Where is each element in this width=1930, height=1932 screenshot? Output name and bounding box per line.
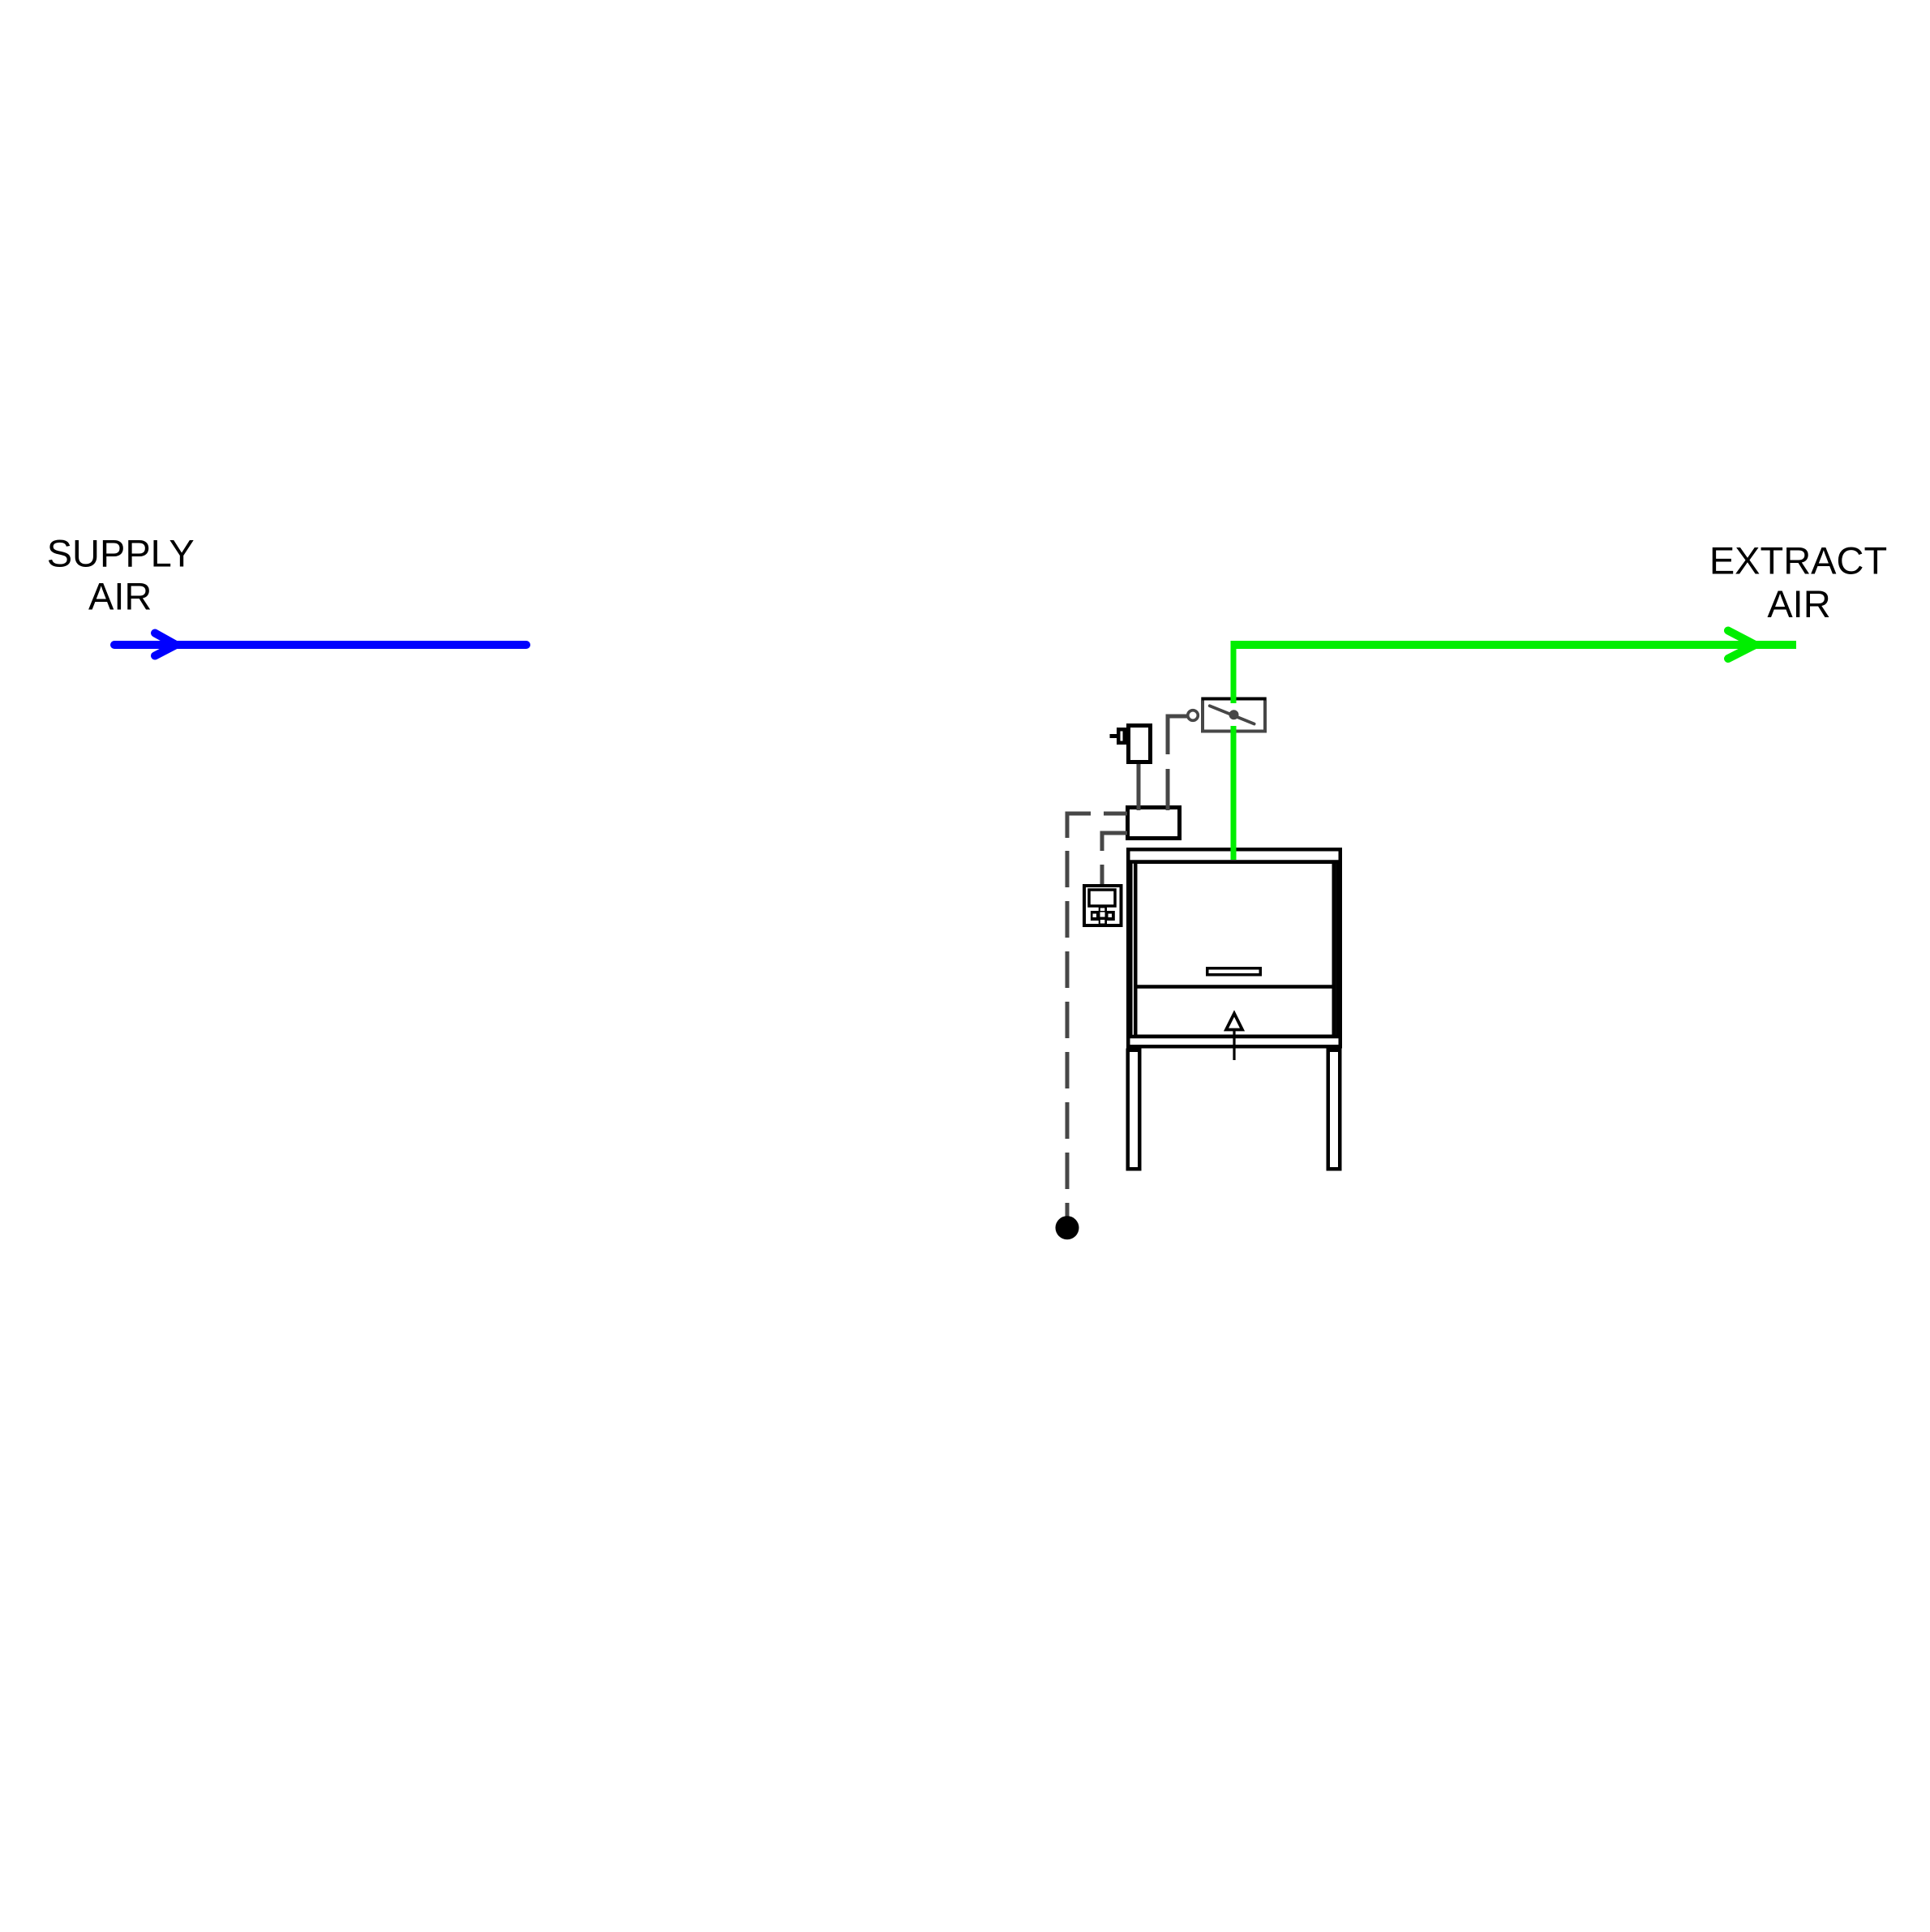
- svg-text:SUPPLY: SUPPLY: [47, 531, 195, 574]
- svg-text:AIR: AIR: [88, 574, 152, 617]
- wire control cable W1 damper to controller (gray): [1168, 716, 1187, 810]
- left wall inner line: [1130, 861, 1133, 1037]
- label SUPPLY AIR: [47, 531, 195, 617]
- wire extract air duct vertical upper (green): [1231, 641, 1237, 703]
- controller U1: [1128, 808, 1180, 839]
- supply air flow arrowhead: [155, 633, 176, 656]
- airflow arrow into sash opening: [1226, 1014, 1242, 1061]
- display panel U2: [1084, 886, 1122, 925]
- fume cupboard sash line: [1134, 985, 1336, 989]
- fume cupboard right leg: [1328, 1050, 1340, 1170]
- right wall inner line: [1336, 861, 1339, 1037]
- wire control cable W3 controller to display (gray dashed): [1102, 833, 1127, 885]
- extract air flow arrowhead: [1728, 631, 1756, 659]
- damper actuator port circle: [1188, 711, 1199, 721]
- svg-text:AIR: AIR: [1767, 582, 1830, 625]
- label EXTRACT AIR: [1709, 539, 1887, 626]
- wire control cable W2 actuator to controller (gray): [1137, 762, 1141, 810]
- wire extract air duct vertical lower (green): [1231, 726, 1237, 860]
- wire sensor cable W4 controller to sensor (gray dashed): [1067, 814, 1127, 1217]
- svg-text:EXTRACT: EXTRACT: [1709, 539, 1887, 582]
- damper D1: [1202, 699, 1266, 732]
- actuator M1: [1110, 726, 1151, 762]
- fume cupboard left leg: [1128, 1050, 1140, 1170]
- wire supply air duct (blue): [114, 641, 526, 649]
- wire extract air duct horizontal (green): [1231, 641, 1796, 649]
- sensor node (black dot): [1056, 1216, 1079, 1239]
- fume cupboard sash handle: [1207, 968, 1261, 975]
- fume cupboard body: [1126, 849, 1342, 1046]
